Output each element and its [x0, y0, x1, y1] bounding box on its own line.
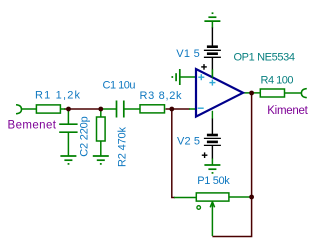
svg-text:C2 220p: C2 220p	[78, 116, 90, 157]
svg-text:R4 100: R4 100	[261, 75, 294, 87]
svg-text:V2 5: V2 5	[177, 135, 200, 147]
svg-text:V1 5: V1 5	[176, 48, 200, 60]
svg-text:P1 50k: P1 50k	[197, 175, 230, 187]
svg-text:R1 1,2k: R1 1,2k	[35, 90, 81, 102]
svg-text:R3 8,2k: R3 8,2k	[140, 90, 183, 102]
svg-text:Kimenet: Kimenet	[267, 105, 308, 117]
svg-text:OP1 NE5534: OP1 NE5534	[234, 52, 296, 64]
svg-text:Bemenet: Bemenet	[8, 119, 57, 131]
svg-text:C1 10u: C1 10u	[103, 80, 136, 92]
svg-text:R2 470k: R2 470k	[116, 127, 128, 168]
